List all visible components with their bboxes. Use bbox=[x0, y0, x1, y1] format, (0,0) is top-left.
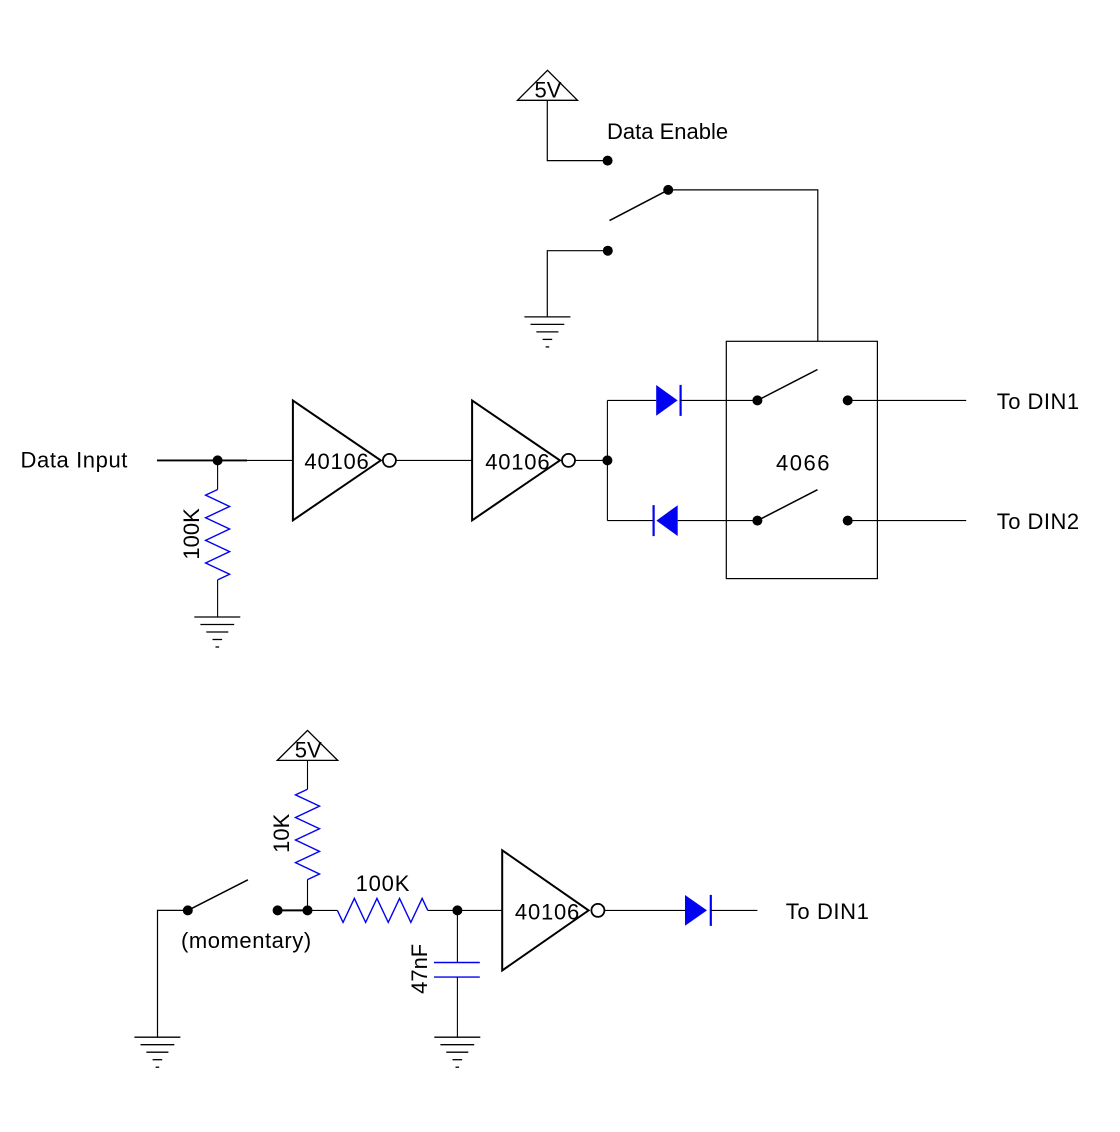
wire switch common to 4066 control bbox=[668, 190, 818, 341]
wire D2 to 4066 switch 2 bbox=[678, 520, 758, 522]
wire stub (thick) to switch contact bbox=[278, 909, 308, 911]
wire Data Input (thick segment) bbox=[157, 459, 247, 461]
wire S2 to DIN2 bbox=[848, 520, 967, 522]
resistor 10K (pull-up) bbox=[296, 789, 320, 879]
node D dot bbox=[452, 905, 462, 915]
switch SW2 blade bbox=[188, 880, 248, 911]
ground (below momentary switch) bbox=[134, 1037, 180, 1067]
wire U2 output to node B bbox=[576, 459, 608, 461]
node: switch throw 1 dot bbox=[603, 156, 613, 166]
wire capacitor to ground bbox=[456, 977, 458, 1037]
diode D2 (to DIN2 switch, reversed) bbox=[654, 505, 678, 536]
capacitor C1 47nF bbox=[434, 963, 480, 978]
svg-text:40106: 40106 bbox=[515, 899, 580, 924]
svg-text:Data Input: Data Input bbox=[21, 448, 129, 473]
diode D3 (to DIN1) bbox=[685, 895, 711, 926]
wire node D to capacitor bbox=[456, 910, 458, 962]
power 5V supply symbol (top circuit) bbox=[518, 70, 578, 100]
inverter U2 40106 bbox=[472, 401, 575, 521]
wire 5V to resistor 10K bbox=[307, 760, 309, 789]
wire node C to resistor 100K bbox=[308, 909, 338, 911]
wire U3 output to diode D3 bbox=[605, 909, 685, 911]
wire S1 to DIN1 bbox=[848, 399, 967, 401]
wire 5V to switch throw 1 bbox=[547, 100, 607, 160]
switch S1 (inside 4066, top) bbox=[752, 370, 852, 406]
node C dot bbox=[303, 905, 313, 915]
svg-text:(momentary): (momentary) bbox=[181, 928, 312, 953]
svg-text:To DIN1: To DIN1 bbox=[997, 389, 1080, 414]
wire D1 to 4066 switch 1 bbox=[681, 399, 758, 401]
switch SW1 common node dot bbox=[663, 185, 673, 195]
IC 4066 box bbox=[726, 341, 877, 578]
resistor 100K (pull-down) bbox=[206, 490, 230, 580]
svg-text:5V: 5V bbox=[535, 78, 562, 103]
wire node A to resistor bbox=[217, 460, 219, 489]
inverter U1 40106 bbox=[293, 401, 396, 521]
wire node D to inverter U3 bbox=[457, 909, 502, 911]
ground (below 100K) bbox=[194, 617, 240, 647]
svg-text:40106: 40106 bbox=[485, 449, 550, 474]
wire node B to diode D1 bbox=[607, 399, 656, 401]
node B dot bbox=[602, 455, 612, 465]
wire D3 to output bbox=[711, 909, 758, 911]
svg-text:4066: 4066 bbox=[776, 450, 831, 475]
wire U1 output to U2 input bbox=[397, 459, 473, 461]
ground (below capacitor) bbox=[434, 1037, 480, 1067]
switch S2 (inside 4066, bottom) bbox=[752, 490, 852, 526]
wire to inverter U1 input bbox=[247, 459, 293, 461]
svg-text:47nF: 47nF bbox=[407, 944, 432, 994]
svg-text:100K: 100K bbox=[356, 871, 411, 896]
diode D1 (to DIN1 switch) bbox=[656, 385, 680, 416]
switch SW1 blade bbox=[610, 190, 669, 221]
wire 100K to node D bbox=[428, 909, 458, 911]
power 5V supply symbol (bottom circuit) bbox=[277, 730, 337, 760]
svg-text:40106: 40106 bbox=[304, 449, 369, 474]
wire throw 2 to ground bbox=[547, 251, 608, 317]
inverter U3 40106 bbox=[502, 850, 604, 970]
node A dot bbox=[213, 455, 223, 465]
svg-text:To DIN1: To DIN1 bbox=[786, 899, 870, 924]
wire 10K to node C bbox=[307, 880, 309, 911]
svg-text:10K: 10K bbox=[269, 813, 294, 852]
switch SW2 (momentary) pole dot bbox=[183, 905, 193, 915]
wire node B to diode D2 bbox=[607, 520, 653, 522]
node: switch contact dot bbox=[273, 905, 283, 915]
svg-text:To DIN2: To DIN2 bbox=[997, 509, 1080, 534]
wire resistor to ground bbox=[217, 580, 219, 617]
wire switch pole to ground bbox=[158, 910, 188, 1037]
resistor 100K (series, horizontal) bbox=[337, 898, 427, 922]
svg-text:100K: 100K bbox=[179, 508, 204, 560]
ground (below Data Enable switch) bbox=[524, 317, 570, 347]
svg-text:5V: 5V bbox=[295, 737, 322, 762]
wire node B branch vertical bbox=[606, 400, 608, 520]
node: switch throw 2 dot bbox=[603, 246, 613, 256]
svg-text:Data Enable: Data Enable bbox=[607, 119, 728, 144]
